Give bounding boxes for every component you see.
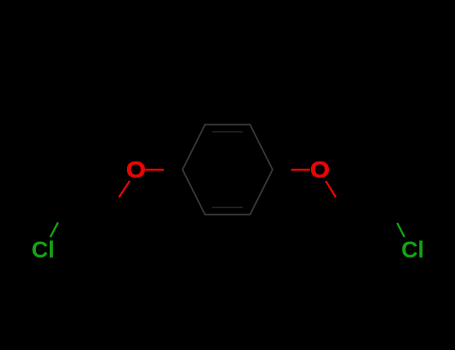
svg-text:Cl: Cl xyxy=(32,237,55,263)
benzene ring C1-C6 (faint carbon bonds) xyxy=(183,125,273,215)
wire: O-CH2 bond left, O half xyxy=(119,181,130,197)
svg-text:O: O xyxy=(310,158,330,184)
wire: O-CH2 bond right, O half xyxy=(326,181,336,197)
wire: O-C(ring) bond right, O half xyxy=(291,169,310,171)
double bond inner line (bottom edge C5=C6) xyxy=(212,206,243,208)
svg-text:Cl: Cl xyxy=(401,237,424,263)
wire: CH2-Cl bond left, Cl half xyxy=(50,222,58,237)
wire: O-C(ring) bond left, O half xyxy=(145,169,164,171)
svg-text:O: O xyxy=(126,158,146,184)
double bond inner line (top edge C2=C3) xyxy=(212,131,243,133)
wire: CH2-Cl bond right, Cl half xyxy=(397,223,404,237)
